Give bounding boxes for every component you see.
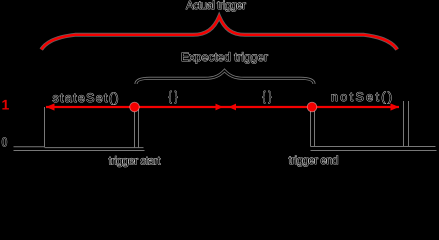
svg-text:1: 1 xyxy=(2,97,10,113)
